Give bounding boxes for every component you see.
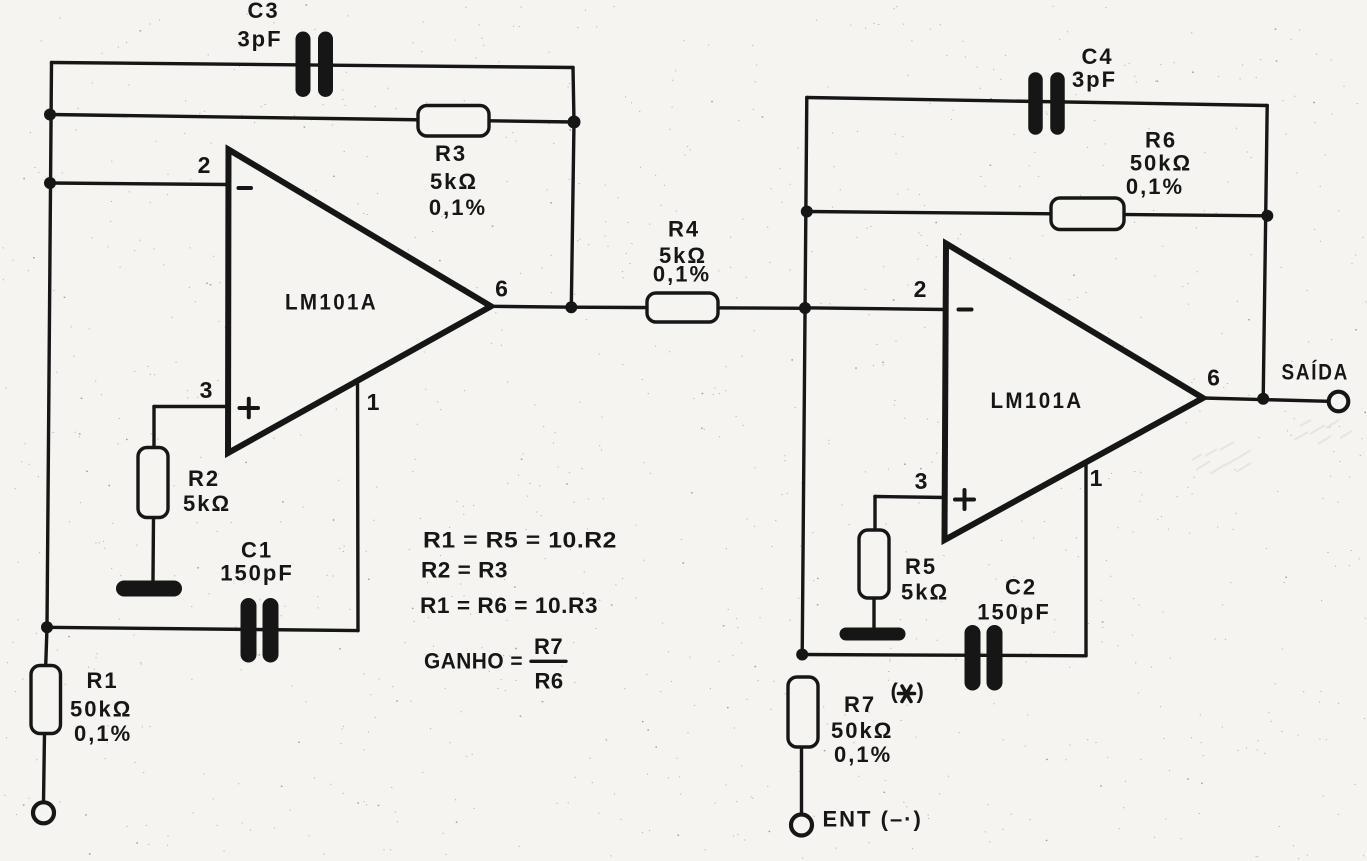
- svg-text:150pF: 150pF: [220, 561, 294, 586]
- svg-text:1: 1: [367, 389, 380, 415]
- svg-text:R3: R3: [435, 141, 467, 166]
- wire: R3 feedback row: [50, 115, 574, 123]
- svg-text:(: (: [891, 679, 900, 704]
- svg-text:R2: R2: [188, 466, 220, 491]
- wire: R6 feedback row: [807, 212, 1268, 216]
- node: left op-amp output junction: [565, 301, 577, 313]
- svg-text:): ): [917, 679, 926, 704]
- capacitor C1: [220, 538, 294, 655]
- svg-text:0,1%: 0,1%: [74, 721, 132, 746]
- svg-text:R7: R7: [844, 692, 876, 717]
- svg-text:ENT (–·): ENT (–·): [823, 807, 923, 832]
- svg-text:R1 = R6 = 10.R3: R1 = R6 = 10.R3: [420, 593, 598, 618]
- terminal: ENT input open circle: [791, 815, 812, 836]
- node: R3 row / x573 vertical junction: [568, 116, 581, 129]
- svg-text:C4: C4: [1081, 44, 1113, 69]
- svg-text:R6: R6: [534, 669, 563, 694]
- svg-text:2: 2: [914, 276, 927, 302]
- op-amp U1 (left LM101A triangle): [228, 150, 491, 454]
- wire: right section left rail: [802, 98, 807, 655]
- svg-text:R1 = R5 = 10.R2: R1 = R5 = 10.R2: [423, 528, 617, 553]
- wire: top feedback right (through C4): [807, 98, 1267, 106]
- wire: pin 3 right vertical to R5: [873, 497, 876, 531]
- svg-text:R6: R6: [1145, 128, 1177, 153]
- resistor R3: [418, 106, 489, 221]
- svg-text:1: 1: [1090, 465, 1103, 491]
- resistor R7: [788, 677, 893, 767]
- svg-text:5kΩ: 5kΩ: [430, 169, 478, 194]
- wire: pin 3 left horizontal: [154, 405, 228, 408]
- svg-text:R1: R1: [87, 668, 119, 693]
- wire: top feedback (through C3): [52, 63, 574, 68]
- ground (right, under R5): [846, 628, 899, 641]
- svg-text:3pF: 3pF: [237, 27, 282, 52]
- node: left rail / pin2 row junction: [44, 177, 56, 189]
- terminal: left input open circle: [33, 802, 54, 823]
- wire: R1 bottom to input terminal: [44, 733, 45, 803]
- wire: left rail vertical: [46, 63, 52, 667]
- node: left rail / R3 row junction: [44, 109, 56, 121]
- svg-text:C2: C2: [1005, 575, 1037, 600]
- wire: pin 1 right vertical: [1084, 462, 1087, 656]
- wire: vertical x=573 joining feedbacks to output: [571, 68, 574, 308]
- svg-text:R4: R4: [668, 217, 700, 242]
- capacitor C2: [973, 575, 1051, 683]
- wire: pin 2 right horizontal: [804, 308, 946, 310]
- svg-text:C3: C3: [247, 0, 279, 23]
- capacitor C3: [237, 0, 325, 90]
- capacitor C4: [1036, 44, 1118, 128]
- asterisk note (*) for R7: [891, 679, 926, 704]
- plus sign pin3 left: [240, 399, 259, 418]
- resistor R5: [859, 530, 949, 605]
- wire: right rail vertical to output: [1263, 106, 1267, 399]
- svg-text:6: 6: [1207, 365, 1220, 391]
- minus sign pin2 left: [239, 186, 252, 190]
- node: left rail / C1 row junction: [41, 621, 53, 633]
- resistor R6: [1051, 128, 1192, 230]
- svg-text:150pF: 150pF: [977, 600, 1051, 625]
- svg-text:3: 3: [915, 468, 928, 494]
- wire: R5 bottom to ground: [872, 598, 875, 628]
- op-amp U2 (right LM101A triangle): [945, 244, 1204, 541]
- svg-text:GANHO =: GANHO =: [424, 649, 523, 674]
- node: right rail / C2 row junction: [796, 649, 808, 661]
- wire: left op-amp output to R4 to node A: [491, 306, 806, 308]
- wire: pin 1 left vertical: [356, 378, 360, 631]
- wire: pin 3 left vertical to R2: [152, 407, 155, 448]
- wire: R7 bottom to ENT terminal: [800, 747, 803, 815]
- svg-text:50kΩ: 50kΩ: [1130, 151, 1192, 176]
- wire: inverting input (pin 2 left): [50, 183, 228, 185]
- node: R6 row / right vertical junction: [1261, 210, 1273, 222]
- svg-text:0,1%: 0,1%: [834, 742, 892, 767]
- equation GANHO = R7/R6: [424, 634, 566, 694]
- faint ghost smudge right-middle: [1192, 420, 1352, 474]
- node: right rail / R6 row junction: [801, 206, 813, 218]
- svg-text:50kΩ: 50kΩ: [70, 697, 132, 722]
- svg-text:3pF: 3pF: [1072, 67, 1117, 92]
- wire: pin 3 right horizontal: [875, 497, 945, 498]
- svg-text:R2 = R3: R2 = R3: [421, 558, 508, 583]
- svg-text:C1: C1: [241, 538, 273, 563]
- wire: right op-amp output to SAIDA: [1203, 398, 1329, 401]
- svg-text:0,1%: 0,1%: [653, 262, 711, 287]
- resistor R1: [31, 666, 132, 747]
- svg-text:50kΩ: 50kΩ: [831, 718, 893, 743]
- svg-text:R5: R5: [905, 554, 937, 579]
- ground (left, under R2): [124, 581, 174, 597]
- resistor R4: [647, 217, 718, 323]
- wire: C1 row from left rail to pin1: [47, 627, 358, 630]
- node: right op-amp output junction: [1257, 393, 1269, 405]
- svg-text:5kΩ: 5kΩ: [901, 580, 949, 605]
- svg-text:2: 2: [198, 152, 211, 178]
- svg-text:R7: R7: [534, 634, 563, 659]
- minus sign pin2 right: [959, 308, 972, 312]
- wire: C2 row from rail to pin1: [802, 655, 1086, 656]
- svg-text:0,1%: 0,1%: [429, 195, 487, 220]
- svg-text:LM101A: LM101A: [991, 388, 1084, 413]
- svg-text:6: 6: [495, 276, 508, 302]
- resistor R2: [138, 448, 231, 518]
- svg-text:0,1%: 0,1%: [1126, 174, 1184, 199]
- svg-text:SAÍDA: SAÍDA: [1282, 360, 1350, 385]
- svg-text:LM101A: LM101A: [285, 290, 378, 315]
- svg-text:5kΩ: 5kΩ: [183, 491, 231, 516]
- svg-text:3: 3: [200, 377, 213, 403]
- wire: R2 bottom to ground: [151, 517, 155, 580]
- plus sign pin3 right: [955, 490, 974, 509]
- terminal: SAIDA output open circle: [1329, 392, 1349, 412]
- node A: R4 output / right rail junction: [799, 302, 811, 314]
